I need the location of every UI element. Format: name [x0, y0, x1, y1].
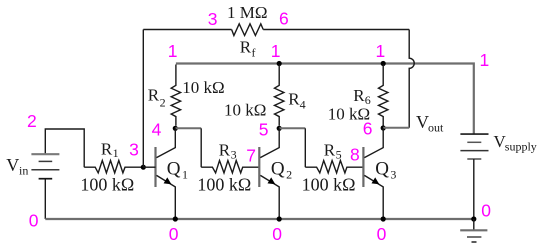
svg-text:R: R	[240, 38, 252, 57]
svg-text:100 kΩ: 100 kΩ	[197, 174, 251, 194]
node 0 dot at ground	[471, 216, 476, 221]
svg-text:R: R	[324, 140, 336, 159]
svg-text:10 kΩ: 10 kΩ	[224, 101, 266, 120]
rail node 1	[176, 64, 474, 135]
svg-text:R: R	[288, 90, 300, 109]
svg-text:2: 2	[160, 95, 166, 109]
svg-text:0: 0	[481, 200, 491, 220]
svg-text:1: 1	[113, 146, 119, 160]
wire Vin top loop	[45, 129, 84, 167]
svg-text:Q: Q	[271, 158, 285, 179]
svg-text:R: R	[219, 140, 231, 159]
svg-text:R: R	[148, 85, 160, 104]
svg-text:7: 7	[246, 146, 256, 166]
node 0 dot under Q1	[173, 216, 178, 221]
resistor R1	[84, 161, 143, 173]
svg-text:V: V	[6, 155, 19, 175]
transistor Q3	[363, 128, 383, 219]
resistor R4	[275, 65, 284, 126]
node 0 dot under Q2	[277, 216, 282, 221]
wire node5 stub to R5	[279, 127, 305, 129]
wire Vsupply bottom lead	[473, 159, 475, 219]
svg-text:1: 1	[376, 41, 386, 61]
ground symbol	[460, 219, 487, 242]
svg-text:3: 3	[208, 9, 218, 29]
ground rail node 0	[45, 218, 474, 220]
svg-text:f: f	[252, 46, 256, 60]
battery Vin	[31, 154, 59, 179]
svg-text:8: 8	[350, 145, 360, 165]
node 4 junction dot	[173, 126, 178, 131]
resistor R6	[379, 65, 388, 126]
svg-text:4: 4	[152, 120, 162, 140]
svg-text:supply: supply	[505, 140, 537, 154]
wire Vin bottom lead	[44, 179, 46, 219]
resistor Rf	[232, 24, 264, 36]
svg-text:R: R	[353, 86, 365, 105]
svg-text:R: R	[101, 139, 113, 158]
svg-text:3: 3	[390, 167, 396, 181]
svg-text:5: 5	[259, 119, 269, 139]
svg-text:0: 0	[29, 210, 39, 230]
node 0 dot under Q3	[381, 216, 386, 221]
node 6 junction dot	[381, 125, 386, 130]
svg-text:100 kΩ: 100 kΩ	[302, 174, 356, 194]
resistor R2	[171, 65, 180, 126]
svg-text:2: 2	[27, 111, 37, 131]
svg-text:out: out	[428, 121, 444, 135]
svg-text:Q: Q	[375, 158, 389, 179]
svg-text:Q: Q	[167, 158, 181, 179]
node 5 junction dot	[277, 126, 282, 131]
svg-text:3: 3	[231, 148, 237, 162]
svg-text:1: 1	[480, 50, 490, 70]
wire feedback top right	[263, 29, 409, 31]
wire down to R3	[200, 128, 202, 167]
wire node4 stub to R3	[175, 127, 201, 129]
svg-text:1: 1	[271, 41, 281, 61]
node 3 junction dot	[141, 165, 146, 170]
svg-text:0: 0	[377, 224, 387, 244]
svg-text:5: 5	[336, 148, 342, 162]
transistor Q1	[143, 128, 175, 219]
wire feedback left vertical	[142, 30, 144, 168]
svg-text:4: 4	[300, 97, 306, 111]
svg-text:6: 6	[363, 119, 373, 139]
resistor R5	[305, 161, 363, 173]
wire feedback top left	[143, 29, 231, 31]
node 1 junction dot at R4	[277, 61, 282, 66]
svg-text:0: 0	[272, 224, 282, 244]
svg-text:6: 6	[279, 8, 289, 28]
wire down to R5	[304, 128, 306, 167]
svg-text:3: 3	[129, 139, 139, 159]
node 1 junction dot at R6	[381, 61, 386, 66]
svg-text:100 kΩ: 100 kΩ	[80, 174, 134, 194]
battery Vsupply	[460, 134, 488, 159]
svg-text:2: 2	[286, 167, 292, 181]
svg-text:1: 1	[168, 41, 178, 61]
svg-text:1 MΩ: 1 MΩ	[227, 3, 268, 22]
svg-text:in: in	[19, 164, 28, 178]
svg-text:0: 0	[169, 224, 179, 244]
resistor R3	[201, 161, 259, 173]
svg-text:10 kΩ: 10 kΩ	[182, 78, 224, 97]
wire feedback right vertical with hop over rail	[409, 30, 414, 128]
wire node6 stub to Vout	[383, 127, 409, 129]
svg-text:1: 1	[182, 167, 188, 181]
transistor Q2	[259, 128, 279, 219]
